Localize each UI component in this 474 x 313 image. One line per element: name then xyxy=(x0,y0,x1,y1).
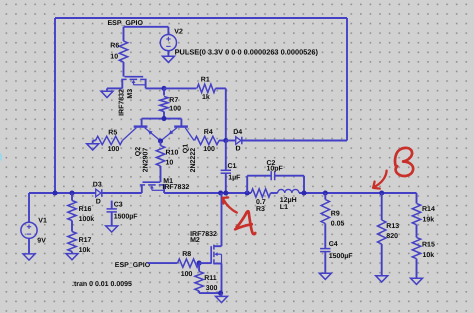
capacitor C4 xyxy=(320,241,353,273)
svg-text:ESP_GPIO: ESP_GPIO xyxy=(115,262,151,269)
svg-text:2N2222: 2N2222 xyxy=(190,148,197,173)
svg-text:V2: V2 xyxy=(174,28,183,35)
resistor R10 xyxy=(156,141,178,182)
inductor L1 xyxy=(278,189,299,210)
value label V2 xyxy=(175,48,319,57)
transistor Q1 xyxy=(161,127,197,173)
transistor M2 xyxy=(190,231,221,264)
wire xyxy=(180,119,182,126)
svg-text:C1: C1 xyxy=(228,163,237,170)
svg-text:100: 100 xyxy=(181,271,193,278)
svg-text:R17: R17 xyxy=(79,237,92,244)
wire xyxy=(124,26,169,28)
svg-text:R6: R6 xyxy=(110,42,119,49)
wire xyxy=(199,262,211,264)
node B junction (R9) xyxy=(323,190,328,195)
svg-text:100: 100 xyxy=(108,146,120,153)
resistor R7 xyxy=(160,88,181,118)
spice directive .tran xyxy=(72,281,132,288)
node A-column junction xyxy=(223,138,228,143)
resistor R13 xyxy=(378,193,400,276)
node A (C1 junction) xyxy=(223,190,228,195)
svg-text:0.05: 0.05 xyxy=(331,221,345,228)
svg-text:D3: D3 xyxy=(93,182,102,189)
node gate junction xyxy=(197,261,202,266)
svg-text:1µF: 1µF xyxy=(228,175,241,182)
svg-text:R8: R8 xyxy=(182,251,191,258)
wire xyxy=(54,18,56,193)
annotation letter A xyxy=(235,211,255,234)
svg-text:V1: V1 xyxy=(38,217,47,224)
wire xyxy=(107,87,122,89)
capacitor C2 xyxy=(247,160,304,193)
screen artifact (left edge) xyxy=(0,154,2,161)
svg-text:M3: M3 xyxy=(127,89,134,99)
svg-text:R3: R3 xyxy=(256,206,265,213)
svg-text:R16: R16 xyxy=(79,206,92,213)
node rail/L1 junction xyxy=(301,190,306,195)
node ESP_GPIO label (bottom) xyxy=(115,262,151,269)
svg-text:R9: R9 xyxy=(331,210,340,217)
wire xyxy=(102,192,142,194)
svg-text:1500µF: 1500µF xyxy=(329,253,354,260)
svg-text:R15: R15 xyxy=(422,241,435,248)
node rail/R13 junction xyxy=(379,190,384,195)
svg-text:D: D xyxy=(96,199,101,206)
svg-text:100k: 100k xyxy=(79,215,95,223)
svg-text:M2: M2 xyxy=(190,237,200,244)
resistor R5 xyxy=(93,130,123,154)
resistor R1 xyxy=(164,77,226,141)
svg-text:R5: R5 xyxy=(108,130,117,137)
svg-text:PULSE(0 3.3V 0 0 0 0.0000263 0: PULSE(0 3.3V 0 0 0 0.0000263 0.0000526) xyxy=(175,48,319,57)
svg-text:C4: C4 xyxy=(329,241,338,248)
wire xyxy=(142,118,182,120)
ground xyxy=(376,276,388,282)
svg-text:R13: R13 xyxy=(386,223,399,230)
annotation arrow A xyxy=(223,198,237,213)
svg-text:10k: 10k xyxy=(423,251,435,259)
ground xyxy=(101,88,113,97)
svg-text:10: 10 xyxy=(166,160,174,167)
transistor M1 xyxy=(140,178,190,193)
node rail/C2-R3 junction xyxy=(245,190,250,195)
svg-text:100: 100 xyxy=(203,146,215,153)
node base junction xyxy=(161,116,166,121)
svg-text:IRF7832: IRF7832 xyxy=(118,89,125,116)
svg-text:R7: R7 xyxy=(169,97,178,104)
wire xyxy=(123,27,125,41)
svg-text:2N2907: 2N2907 xyxy=(143,148,150,173)
wire xyxy=(271,192,278,194)
ground xyxy=(23,254,35,260)
diode D3 xyxy=(93,182,102,206)
ground xyxy=(411,278,423,284)
node rail/M2-drain junction xyxy=(218,190,223,195)
node source junction xyxy=(218,291,223,296)
ground xyxy=(216,293,228,303)
ground xyxy=(319,273,331,279)
node gate/R1/R7 junction xyxy=(161,86,166,91)
wire xyxy=(29,192,96,194)
svg-text:R14: R14 xyxy=(422,206,435,213)
node rail/R16 junction xyxy=(69,190,74,195)
svg-text:19k: 19k xyxy=(423,216,435,224)
svg-text:IRF7832: IRF7832 xyxy=(162,184,189,191)
capacitor C3 xyxy=(107,201,139,226)
svg-text:.tran 0 0.01 0.0095: .tran 0 0.01 0.0095 xyxy=(72,281,132,288)
node rail/left-loop junction xyxy=(52,190,57,195)
transistor M3 xyxy=(118,77,146,116)
svg-text:9V: 9V xyxy=(37,238,46,245)
resistor R9 xyxy=(321,193,344,249)
svg-text:R11: R11 xyxy=(204,275,217,282)
resistor R17 xyxy=(68,232,92,254)
resistor R3 xyxy=(251,189,271,213)
svg-text:1k: 1k xyxy=(202,93,210,101)
capacitor C1 xyxy=(221,141,242,194)
wire xyxy=(148,262,178,264)
ground xyxy=(162,56,174,62)
resistor R14 xyxy=(412,203,435,237)
annotation arrow B xyxy=(373,171,386,189)
svg-text:L1: L1 xyxy=(280,204,288,211)
resistor R16 xyxy=(68,193,94,232)
svg-text:100: 100 xyxy=(169,106,181,113)
ground xyxy=(87,141,99,151)
wire xyxy=(346,18,348,141)
resistor R11 xyxy=(195,263,218,293)
svg-text:10k: 10k xyxy=(79,246,91,254)
svg-text:10pF: 10pF xyxy=(267,166,284,173)
annotation letter B xyxy=(395,148,413,176)
voltage source V1 xyxy=(21,193,47,254)
wire xyxy=(199,292,221,294)
svg-text:C3: C3 xyxy=(114,201,123,208)
voltage source V2 xyxy=(160,27,183,56)
node ESP_GPIO label (top) xyxy=(108,20,144,27)
node emitter junction xyxy=(158,138,163,143)
svg-text:D: D xyxy=(236,145,241,152)
wire xyxy=(146,87,164,89)
resistor R4 xyxy=(195,129,226,153)
svg-text:1500µF: 1500µF xyxy=(114,214,139,221)
transistor Q2 xyxy=(122,127,160,173)
wire xyxy=(55,17,347,19)
wire xyxy=(164,192,251,194)
wire xyxy=(242,140,347,142)
svg-text:10: 10 xyxy=(110,53,118,60)
ground xyxy=(66,254,78,260)
ground xyxy=(106,226,118,232)
wire xyxy=(221,193,223,246)
svg-text:Q1: Q1 xyxy=(183,144,190,153)
svg-text:R4: R4 xyxy=(204,129,213,136)
diode D4 xyxy=(226,129,242,153)
svg-text:D4: D4 xyxy=(233,129,242,136)
resistor R8 xyxy=(178,251,199,278)
wire xyxy=(299,192,417,194)
svg-text:300: 300 xyxy=(206,285,218,292)
wire xyxy=(416,193,418,203)
wire xyxy=(221,264,223,294)
resistor R15 xyxy=(412,237,435,278)
svg-text:Q2: Q2 xyxy=(135,147,142,156)
resistor R6 xyxy=(110,41,127,77)
wire xyxy=(141,119,143,126)
svg-text:R10: R10 xyxy=(166,150,179,157)
svg-text:R1: R1 xyxy=(201,77,210,84)
svg-text:820: 820 xyxy=(386,233,398,240)
